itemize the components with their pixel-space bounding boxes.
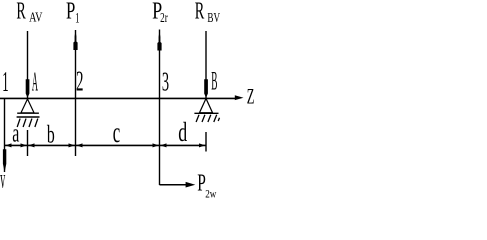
svg-text:2: 2 <box>76 64 84 97</box>
dimension arrowheads segment d <box>160 143 166 147</box>
svg-text:A: A <box>32 68 38 98</box>
P2r up arrowhead <box>157 31 161 51</box>
svg-text:v: v <box>0 165 5 194</box>
svg-text:3: 3 <box>162 65 169 96</box>
svg-text:c: c <box>113 118 120 150</box>
svg-text:AV: AV <box>29 9 42 25</box>
svg-text:B: B <box>211 67 217 96</box>
wire left vertical line with v arrow <box>4 98 6 172</box>
svg-text:2w: 2w <box>205 189 217 201</box>
support A base line <box>17 112 39 114</box>
R_BV down arrowhead <box>204 79 208 98</box>
dimension line <box>5 144 207 146</box>
beam axis line <box>0 97 237 99</box>
dimension arrowheads segment c <box>76 143 82 147</box>
svg-text:BV: BV <box>207 9 220 26</box>
dimension arrowheads segment a <box>5 143 11 147</box>
Z axis arrowhead <box>235 95 244 100</box>
svg-text:R: R <box>195 0 205 25</box>
svg-text:2r: 2r <box>160 9 168 26</box>
P1 up arrowhead <box>73 31 77 51</box>
svg-text:1: 1 <box>75 9 79 26</box>
dimension arrowheads segment b <box>28 143 34 147</box>
wire R_BV vertical line <box>205 31 207 98</box>
support A ground line <box>17 116 40 118</box>
support A hatching <box>17 119 38 127</box>
wire P2r / node3 vertical line <box>159 30 161 186</box>
dimension tick at A <box>27 130 29 156</box>
svg-text:a: a <box>12 119 19 148</box>
R_AV down arrowhead <box>26 79 30 98</box>
v down arrowhead <box>3 149 6 172</box>
support B triangle <box>200 99 213 113</box>
svg-text:d: d <box>178 117 187 148</box>
svg-text:R: R <box>16 0 25 25</box>
wire R_AV vertical line <box>27 31 29 98</box>
wire P2w horizontal line <box>160 184 188 186</box>
wire P1 / node2 vertical line <box>75 30 77 156</box>
support A triangle <box>21 99 34 113</box>
svg-text:1: 1 <box>2 65 9 97</box>
support B hatching <box>196 115 219 122</box>
P2w right arrowhead <box>186 182 196 188</box>
dimension tick at B <box>205 132 207 152</box>
svg-text:b: b <box>47 120 55 149</box>
svg-text:Z: Z <box>247 84 255 109</box>
svg-text:P: P <box>66 0 75 24</box>
support B ground line <box>194 112 218 114</box>
